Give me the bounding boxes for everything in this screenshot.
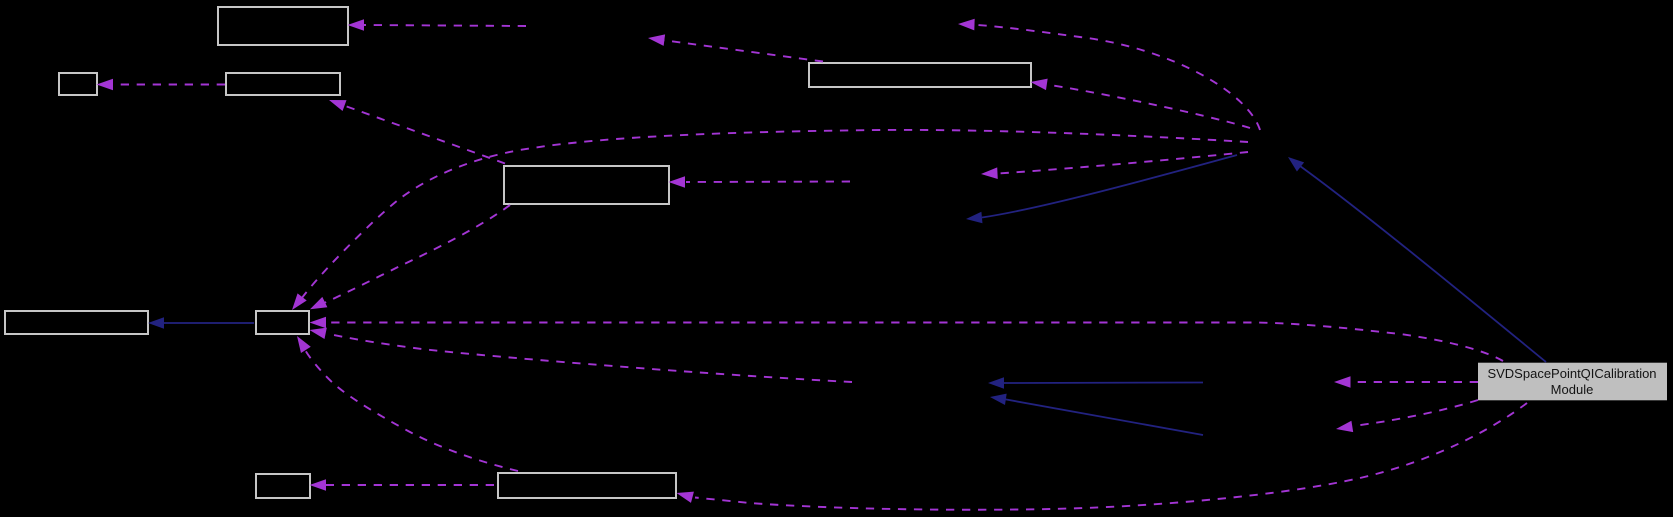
node D (wide top, empty) — [809, 63, 1031, 87]
edge D to invisible node (dashed) — [647, 32, 823, 61]
edge E to G (dashed) — [307, 205, 510, 315]
node I (bottom wide, empty) — [498, 473, 676, 498]
edge invisible N6 to base (solid blue) — [988, 377, 1203, 389]
edge E to C (dashed) — [327, 95, 505, 164]
node A (top 2-line, empty) — [218, 7, 348, 45]
node H (small bottom, empty) — [256, 474, 310, 498]
edge J to G (horizontal) (dashed) — [310, 317, 1504, 361]
node E (middle 2-line, empty) — [504, 166, 669, 204]
svg-text:Module: Module — [1551, 382, 1594, 397]
edge I to H (dashed) — [310, 479, 495, 491]
edge I to G (curve from below) (dashed) — [292, 333, 518, 471]
edge invisible node N4 to E (dashed) — [669, 176, 851, 188]
edge invisible N7 to base (solid blue) — [989, 391, 1203, 435]
edge C to B (dashed) — [97, 79, 226, 91]
node F (bottom-left wide, empty) — [5, 311, 148, 334]
node B (small left, empty) — [59, 73, 97, 95]
edge invisible-node to A (dashed) — [348, 19, 527, 31]
edge Module to D (dashed) — [1030, 76, 1250, 128]
node J SVDSpacePointQICalibrationModule (central, gray filled) — [1478, 363, 1667, 401]
edge invisible node to G (shallow diagonal) (dashed) — [308, 324, 852, 382]
edge Module to invisible base (solid blue) — [965, 155, 1237, 225]
node G (small hub target, empty) — [256, 311, 309, 334]
edge J to Module (inheritance) (solid blue) — [1284, 152, 1546, 362]
edge Module to invisible node N4 (dashed) — [981, 152, 1248, 180]
edge J to invisible node N6 (dashed) — [1334, 376, 1478, 388]
edge J to invisible node N7 (dashed) — [1335, 400, 1478, 435]
svg-text:SVDSpacePointQICalibration: SVDSpacePointQICalibration — [1487, 366, 1656, 381]
edge Module to G (dashed) — [287, 130, 1248, 314]
edge G to F (inheritance) (solid blue) — [148, 317, 254, 329]
edge Module to invisible top node (dashed) — [958, 18, 1260, 130]
edge J to I (bottom sweep) (dashed) — [675, 403, 1527, 510]
node C (empty) — [226, 73, 340, 95]
